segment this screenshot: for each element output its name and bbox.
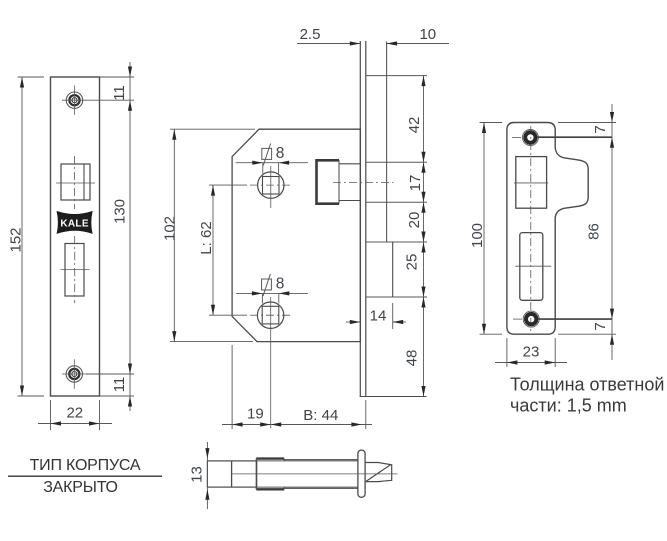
- svg-text:ЗАКРЫТО: ЗАКРЫТО: [43, 479, 118, 496]
- latch bolt side view with bevel: [365, 463, 392, 482]
- svg-text:25: 25: [404, 254, 421, 271]
- strike plate screw hole top: [525, 132, 535, 142]
- dimension 14: [346, 321, 360, 323]
- square symbol 8 label lower: [262, 279, 272, 290]
- svg-text:ТИП КОРПУСА: ТИП КОРПУСА: [30, 457, 141, 474]
- reference line top hole to dimension: [537, 136, 612, 138]
- dimension 152 extension lines: [18, 76, 45, 78]
- latch bolt head front view: [317, 160, 340, 203]
- strike plate vertical centerline: [530, 126, 532, 331]
- dimension 102 extension lines: [170, 128, 255, 130]
- dimension 23 extension lines: [506, 338, 508, 367]
- right dimension column 42 17 20 25 48: [423, 76, 425, 397]
- centerline through bottom screw hole: [73, 359, 75, 388]
- svg-text:13: 13: [189, 466, 206, 483]
- lock body outline: [232, 129, 360, 341]
- svg-text:2.5: 2.5: [300, 26, 321, 43]
- dimension line 11-130-11: [129, 62, 131, 411]
- svg-text:Толщина ответной: Толщина ответной: [510, 375, 664, 395]
- latch axis line bottom view: [232, 473, 398, 475]
- strike plate outline with tab: [507, 123, 588, 335]
- svg-text:8: 8: [276, 145, 285, 162]
- faceplate bar cross-section: [358, 450, 365, 497]
- deadbolt cutout centerlines: [61, 269, 90, 271]
- svg-text:19: 19: [247, 406, 264, 423]
- svg-text:23: 23: [523, 343, 540, 360]
- latch shaft lines: [339, 163, 360, 165]
- dimension 102: [173, 129, 175, 341]
- dimension 22: [38, 423, 112, 425]
- collar thick section: [256, 457, 284, 459]
- follower hub lower with square hole 8mm: [257, 302, 283, 328]
- dimension 23: [495, 362, 567, 364]
- svg-text:20: 20: [406, 212, 423, 229]
- dimension L62: [212, 185, 214, 315]
- follower hub upper with square hole 8mm: [258, 172, 284, 198]
- tail divider line: [231, 461, 233, 487]
- dimension line 19 B44: [222, 424, 372, 426]
- screw hole bottom-left plate: [66, 366, 82, 382]
- dimension 13: [206, 442, 208, 509]
- svg-text:130: 130: [112, 199, 129, 224]
- svg-text:22: 22: [66, 405, 83, 422]
- svg-text:11: 11: [111, 85, 128, 101]
- strike plate deadbolt cutout: [520, 233, 543, 301]
- square symbol 8 label upper: [262, 148, 272, 159]
- dimension 152: [21, 77, 23, 396]
- svg-text:48: 48: [404, 350, 421, 367]
- svg-text:8: 8: [276, 276, 285, 293]
- faceplate edge-on strip: [359, 41, 361, 397]
- dimension 8 upper hole: [236, 162, 308, 164]
- svg-text:42: 42: [406, 117, 423, 134]
- svg-text:86: 86: [586, 223, 603, 240]
- right dimension column 7 86 7: [611, 104, 613, 360]
- deadbolt cutout on faceplate: [65, 244, 84, 297]
- latch tail rectangle bottom view: [207, 461, 256, 487]
- svg-text:102: 102: [162, 216, 179, 241]
- deadbolt block side view: [366, 241, 427, 243]
- reference line bottom hole to dimension: [538, 318, 612, 320]
- KALE logo: [57, 212, 92, 234]
- screw hole top-left plate: [66, 92, 82, 108]
- svg-text:14: 14: [370, 308, 387, 325]
- latch axis centerline: [333, 182, 394, 184]
- dimension 100: [483, 123, 485, 335]
- svg-text:11: 11: [111, 377, 128, 393]
- svg-text:KALE: KALE: [60, 219, 88, 230]
- svg-text:10: 10: [419, 26, 436, 43]
- latch cutout centerlines: [56, 182, 95, 184]
- dimension 22 extension lines: [50, 400, 52, 430]
- svg-text:152: 152: [8, 227, 25, 252]
- dimension 2.5: [297, 43, 360, 45]
- faceplate front view outline: [51, 77, 100, 396]
- strike plate latch cutout: [516, 157, 547, 209]
- extension lines to right dimension column: [558, 122, 616, 124]
- svg-text:100: 100: [469, 223, 486, 248]
- dimension 8 lower hole: [236, 292, 308, 294]
- dimension 10: [387, 43, 449, 45]
- case top edge side view / 42 extension: [366, 75, 427, 77]
- dimension 100 extension lines: [480, 122, 503, 124]
- svg-text:17: 17: [407, 175, 424, 192]
- svg-text:части: 1,5 mm: части: 1,5 mm: [510, 396, 627, 416]
- caption divider line: [8, 475, 162, 477]
- dimension L62 reference lines: [209, 184, 247, 186]
- dimension 19 and B44 extension lines: [231, 345, 233, 429]
- svg-text:B: 44: B: 44: [303, 407, 338, 424]
- svg-text:L: 62: L: 62: [198, 221, 215, 254]
- centerline through top screw hole: [74, 86, 76, 115]
- lock case side line: [386, 42, 388, 243]
- case lines bottom view: [284, 459, 358, 461]
- svg-text:7: 7: [592, 322, 609, 330]
- latch cutout on faceplate: [61, 164, 90, 200]
- latch block side view lines / 17 extensions: [366, 161, 427, 163]
- extension lines right of faceplate: [100, 76, 135, 78]
- strike plate screw hole bottom: [526, 314, 536, 324]
- svg-text:7: 7: [592, 125, 609, 133]
